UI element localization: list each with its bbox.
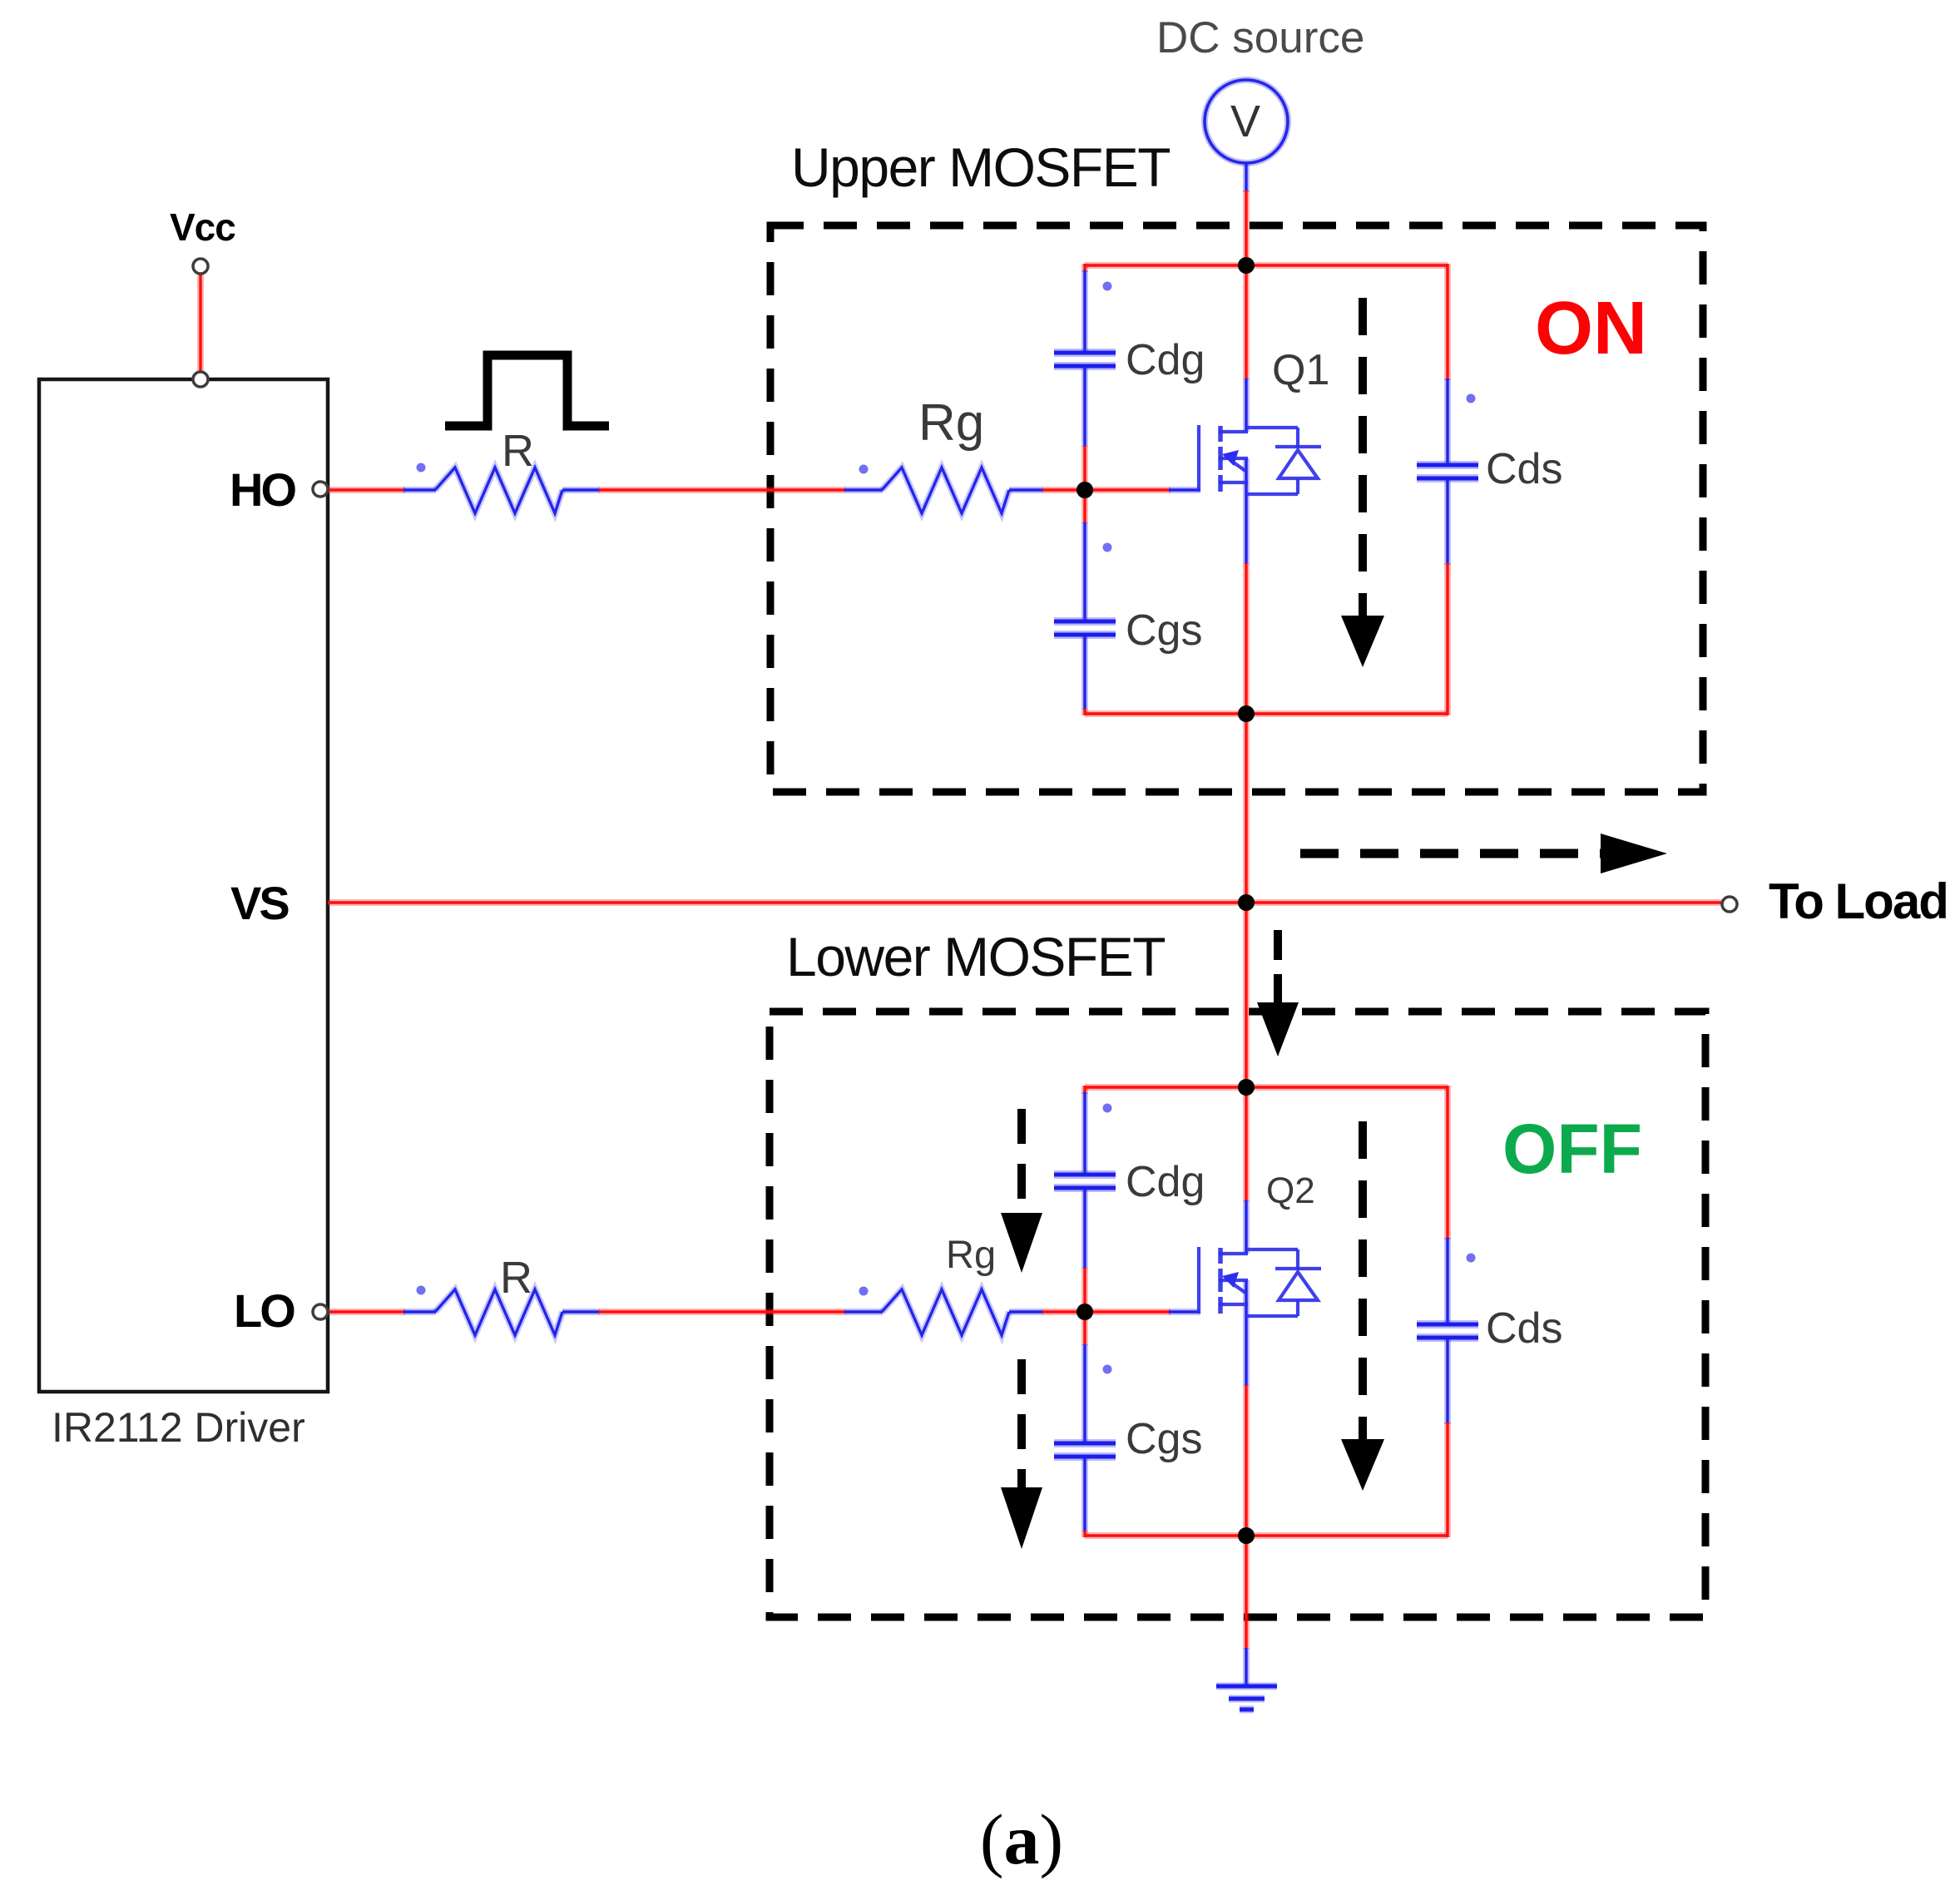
wire into R (blue) bbox=[403, 1309, 436, 1315]
resistor Rg (upper) bbox=[882, 468, 1009, 513]
transistor Q1 (NMOS with body diode) bbox=[1199, 425, 1321, 494]
svg-text:Cgs: Cgs bbox=[1126, 606, 1202, 655]
Upper MOSFET dashed enclosure bbox=[770, 225, 1703, 792]
svg-text:Rg: Rg bbox=[946, 1232, 996, 1276]
svg-text:To Load: To Load bbox=[1769, 873, 1948, 929]
wire cell bottom rail (red) bbox=[1085, 1532, 1448, 1539]
wire R out (blue) bbox=[562, 1309, 600, 1315]
wire right branch lower (red) bbox=[1444, 1422, 1451, 1537]
wire Q1 source to Q2 drain through VS node (red bus) bbox=[1243, 563, 1250, 1201]
wire to ground symbol (blue) bbox=[1243, 1648, 1250, 1686]
svg-text:LO: LO bbox=[234, 1284, 294, 1337]
wire Rg to gate node (red) bbox=[1042, 487, 1086, 493]
wire Rg out (blue) bbox=[1009, 1309, 1043, 1315]
wire Q2 drain lead (blue) bbox=[1243, 1200, 1250, 1254]
svg-text:IR2112 Driver: IR2112 Driver bbox=[52, 1404, 305, 1451]
capacitor Cds upper lead (blue) bbox=[1444, 379, 1451, 465]
node gate junction bbox=[1077, 482, 1093, 498]
wire VS to load bbox=[328, 899, 1723, 906]
gate pulse symbol bbox=[445, 355, 609, 426]
current arrow to load (horizontal) bbox=[1300, 849, 1602, 858]
capacitor Cgs bbox=[1054, 617, 1116, 626]
svg-text:V: V bbox=[1230, 96, 1260, 146]
svg-text:Cdg: Cdg bbox=[1126, 336, 1205, 384]
svg-text:(a): (a) bbox=[980, 1799, 1063, 1879]
ground symbol bbox=[1216, 1686, 1277, 1709]
svg-text:Q2: Q2 bbox=[1266, 1170, 1315, 1211]
wire R to Rg (red) bbox=[599, 487, 845, 493]
HO pin circle bbox=[313, 482, 328, 497]
capacitor Cgs lower lead (blue) bbox=[1081, 636, 1088, 710]
svg-text:Upper MOSFET: Upper MOSFET bbox=[791, 136, 1170, 198]
wire left branch top corner (red) bbox=[1081, 264, 1088, 272]
node VS junction bbox=[1238, 894, 1255, 911]
svg-text:Cds: Cds bbox=[1486, 1304, 1562, 1353]
wire left branch bottom corner (red) bbox=[1081, 1531, 1088, 1537]
wire Q1 source lead (blue) bbox=[1243, 458, 1250, 564]
current arrow inside Q2 (drain-source) bbox=[1359, 1121, 1367, 1441]
capacitor Cgs lower lead (blue) bbox=[1081, 1458, 1088, 1531]
capacitor Cdg upper lead (blue) bbox=[1081, 270, 1088, 351]
capacitor Cds lower lead (blue) bbox=[1444, 480, 1451, 565]
wire into R (blue) bbox=[403, 487, 436, 493]
svg-text:Rg: Rg bbox=[918, 394, 984, 452]
svg-text:DC source: DC source bbox=[1156, 13, 1364, 62]
resistor Rg (lower) bbox=[882, 1289, 1009, 1335]
capacitor Cdg bbox=[1054, 349, 1116, 357]
wire Q1 drain lead (blue) bbox=[1243, 379, 1250, 432]
LO pin circle bbox=[313, 1304, 328, 1319]
Lower MOSFET dashed enclosure bbox=[770, 1012, 1705, 1617]
node gate junction bbox=[1077, 1304, 1093, 1320]
capacitor Cds lower lead (blue) bbox=[1444, 1339, 1451, 1424]
capacitor Cdg lower lead (blue) bbox=[1081, 1190, 1088, 1269]
node drain junction bbox=[1238, 1079, 1255, 1096]
wire left branch bottom corner (red) bbox=[1081, 709, 1088, 715]
capacitor Cgs bbox=[1054, 1439, 1116, 1447]
wire right branch lower (red) bbox=[1444, 563, 1451, 715]
wire Rg to gate node (red) bbox=[1042, 1309, 1086, 1315]
IR2112 driver block U1 bbox=[39, 379, 328, 1392]
svg-text:VS: VS bbox=[230, 877, 289, 929]
capacitor Cds bbox=[1417, 1320, 1478, 1328]
node source junction bbox=[1238, 705, 1255, 722]
wire gate lead (blue) bbox=[1169, 1309, 1200, 1315]
wire cell top rail (red) bbox=[1085, 262, 1448, 269]
wire gate node to gate (red) bbox=[1085, 1309, 1171, 1315]
Vcc terminal circle bbox=[193, 259, 208, 274]
resistor R (lower) bbox=[435, 1289, 562, 1335]
svg-text:R: R bbox=[502, 426, 534, 476]
wire HO to R (red) bbox=[328, 487, 405, 493]
Vcc pin on driver box bbox=[193, 372, 208, 387]
wire gate node to gate (red) bbox=[1085, 487, 1171, 493]
svg-text:Vcc: Vcc bbox=[170, 205, 235, 249]
capacitor Cgs upper lead (blue) bbox=[1081, 522, 1088, 620]
wire Q2 source to ground (red) bbox=[1243, 1385, 1250, 1649]
svg-text:OFF: OFF bbox=[1502, 1110, 1642, 1188]
svg-text:R: R bbox=[500, 1253, 532, 1303]
wire into Rg (blue) bbox=[844, 487, 883, 493]
capacitor Cdg upper lead (blue) bbox=[1081, 1092, 1088, 1173]
current arrow Q2 gate charge upper bbox=[1017, 1109, 1026, 1215]
wire cell top rail (red) bbox=[1085, 1084, 1448, 1091]
wire R to Rg (red) bbox=[599, 1309, 845, 1315]
wire Q2 source lead (blue) bbox=[1243, 1280, 1250, 1386]
wire DC source to bus (blue) bbox=[1243, 163, 1250, 192]
wire gate lead (blue) bbox=[1169, 487, 1200, 493]
svg-text:HO: HO bbox=[230, 463, 295, 516]
wire into Rg (blue) bbox=[844, 1309, 883, 1315]
svg-text:ON: ON bbox=[1535, 287, 1647, 370]
capacitor Cgs upper lead (blue) bbox=[1081, 1344, 1088, 1442]
wire Rg out (blue) bbox=[1009, 487, 1043, 493]
current arrow VS into lower cell bbox=[1274, 930, 1282, 1004]
wire Vcc to driver bbox=[197, 274, 204, 372]
svg-text:Cdg: Cdg bbox=[1126, 1158, 1205, 1206]
wire LO to R (red) bbox=[328, 1309, 405, 1315]
wire cell bottom rail (red) bbox=[1085, 710, 1448, 717]
wire right branch upper (red) bbox=[1444, 1086, 1451, 1239]
capacitor Cdg lower lead (blue) bbox=[1081, 368, 1088, 447]
capacitor Cds bbox=[1417, 461, 1478, 469]
wire left branch top corner (red) bbox=[1081, 1086, 1088, 1094]
DC source symbol V1 bbox=[1205, 80, 1288, 163]
transistor Q2 (NMOS with body diode) bbox=[1199, 1247, 1321, 1316]
current arrow Q2 gate charge lower bbox=[1017, 1359, 1026, 1489]
resistor R (upper) bbox=[435, 468, 562, 513]
svg-text:Cds: Cds bbox=[1486, 445, 1562, 493]
svg-text:Lower MOSFET: Lower MOSFET bbox=[786, 926, 1165, 987]
capacitor Cds upper lead (blue) bbox=[1444, 1238, 1451, 1324]
node drain junction bbox=[1238, 257, 1255, 274]
node source junction bbox=[1238, 1527, 1255, 1544]
current arrow inside Q1 (drain-source) bbox=[1359, 298, 1367, 617]
wire gate node segment (red) bbox=[1081, 1268, 1088, 1345]
wire gate node segment (red) bbox=[1081, 446, 1088, 523]
wire right branch upper (red) bbox=[1444, 264, 1451, 380]
svg-text:Q1: Q1 bbox=[1272, 346, 1329, 394]
wire DC source to Q1 drain (red bus) bbox=[1243, 190, 1250, 379]
svg-text:Cgs: Cgs bbox=[1126, 1415, 1202, 1463]
To Load terminal bbox=[1722, 897, 1737, 912]
capacitor Cdg bbox=[1054, 1170, 1116, 1179]
wire R out (blue) bbox=[562, 487, 600, 493]
